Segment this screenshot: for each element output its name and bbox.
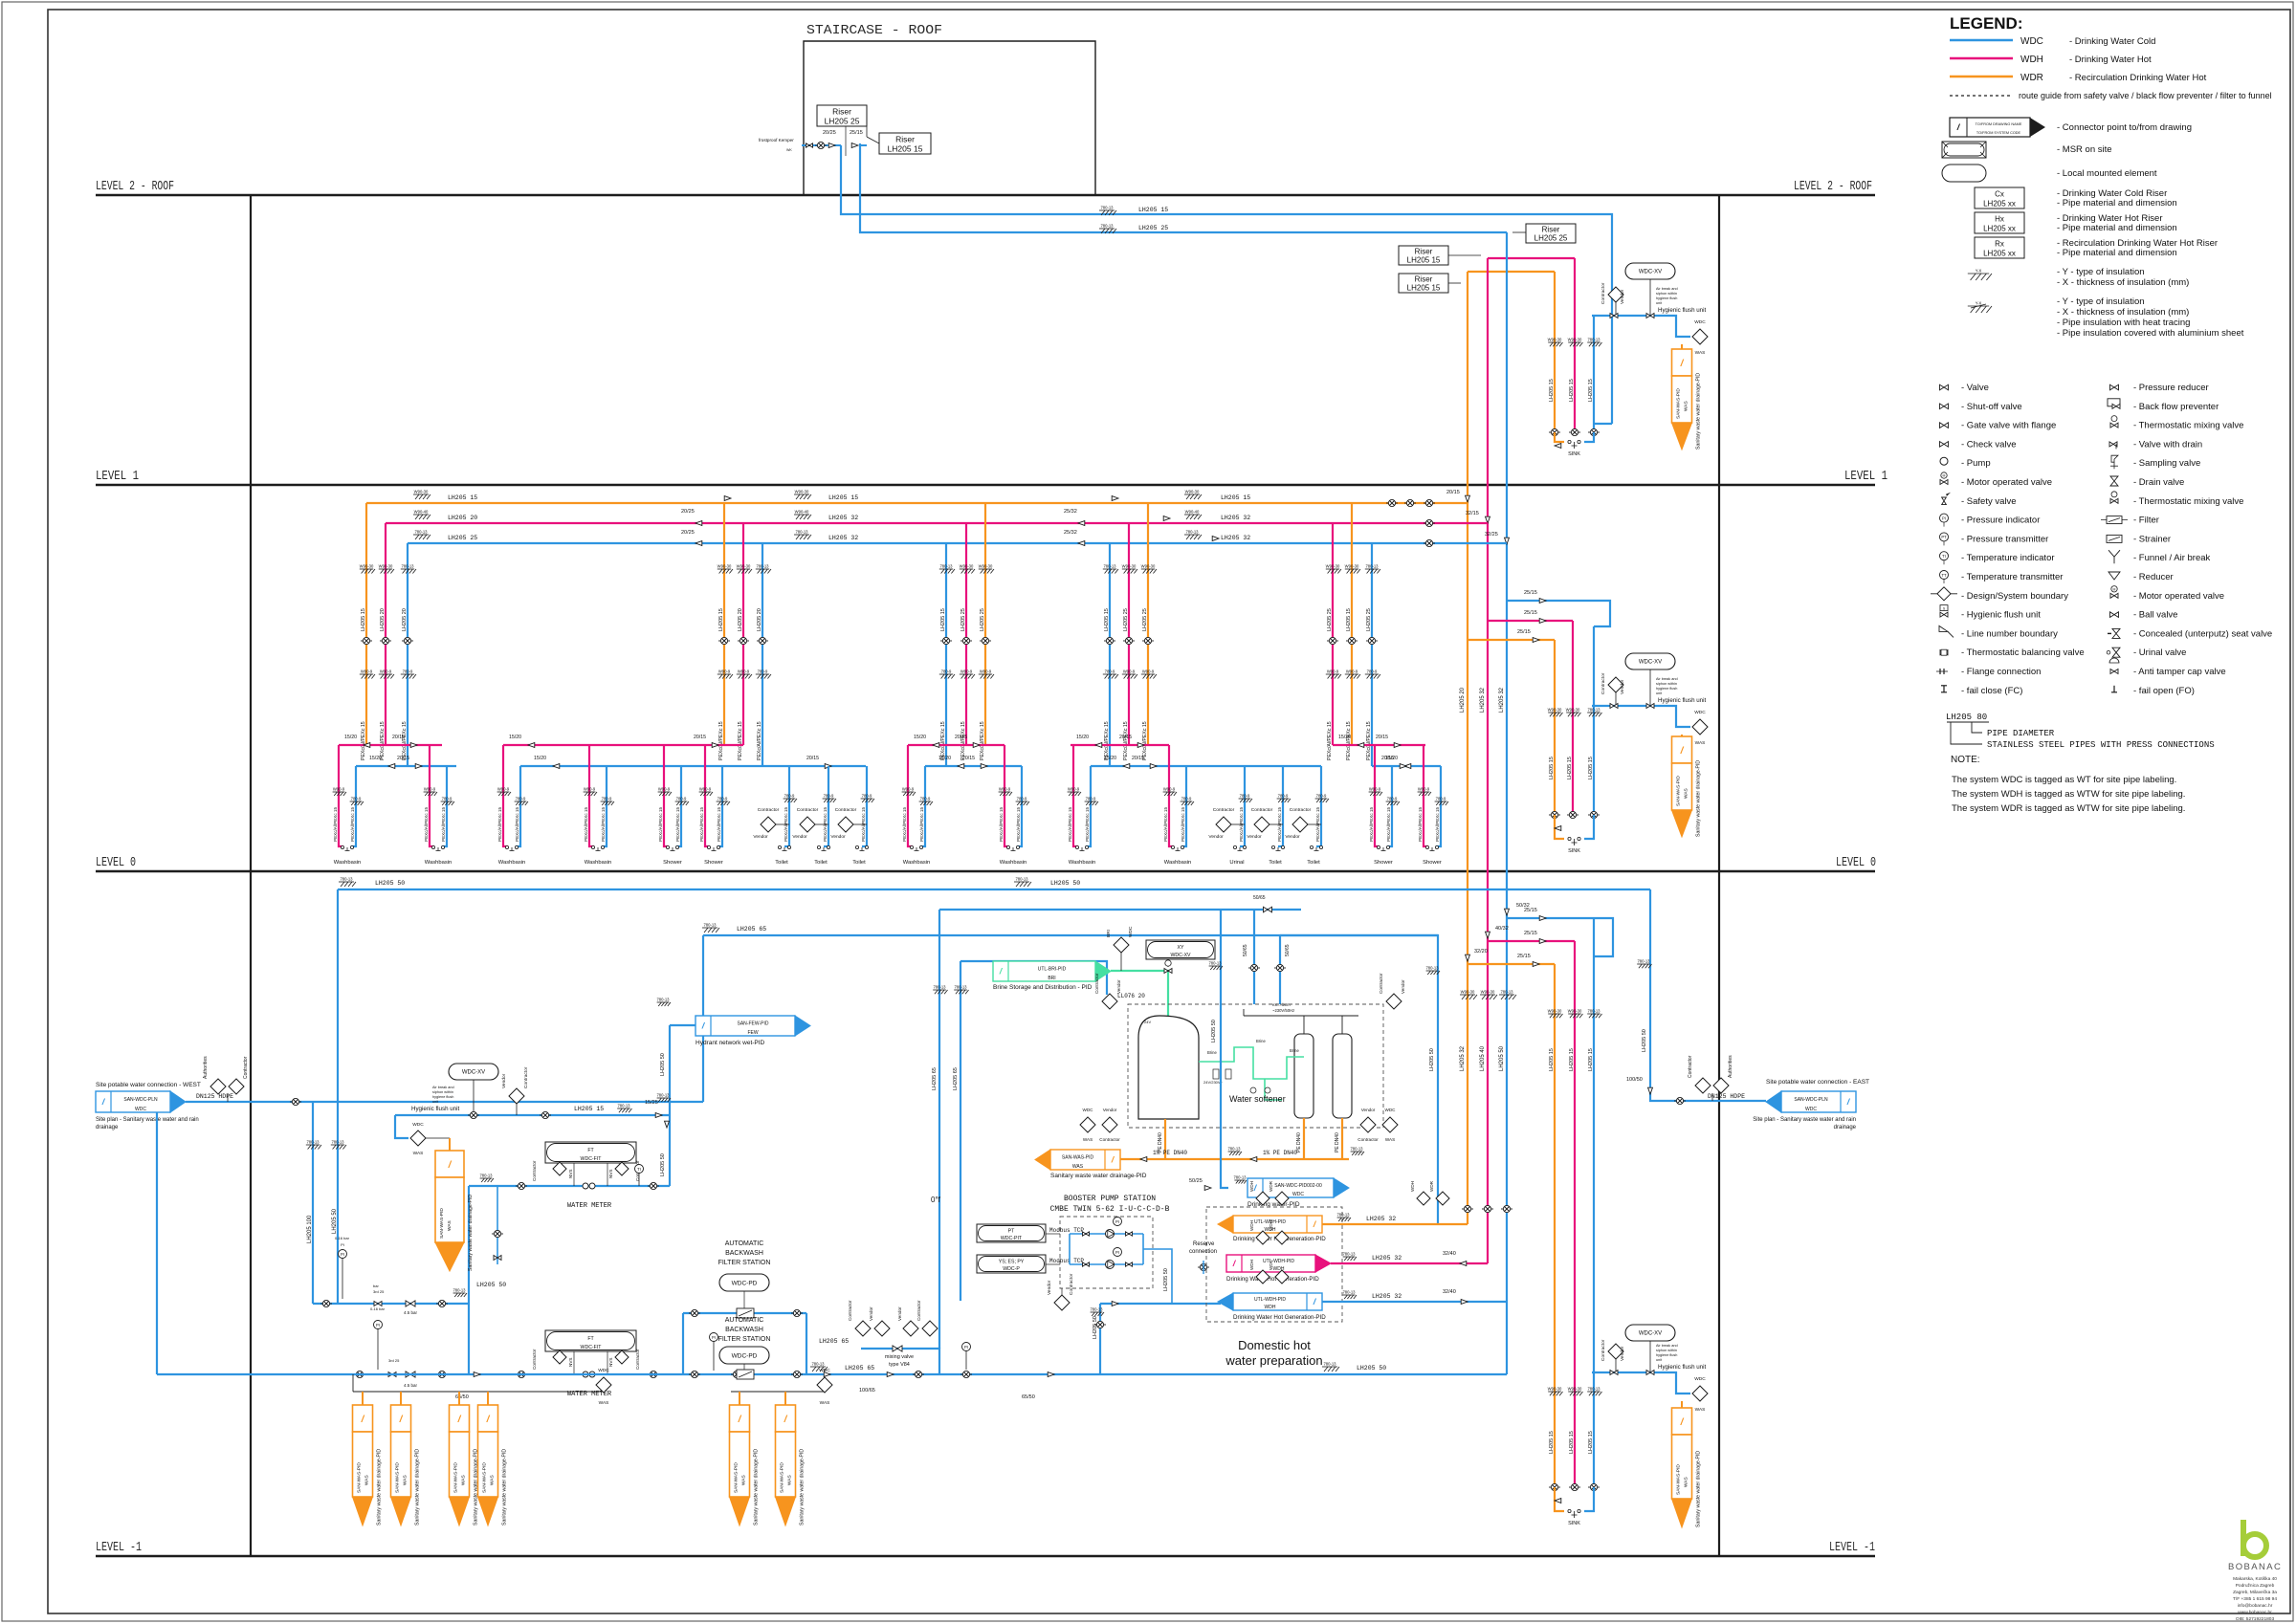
svg-text:FT: FT <box>587 1336 594 1342</box>
svg-text:SAN-WDC-PLN: SAN-WDC-PLN <box>123 1097 158 1103</box>
pressure reducer cluster on basement main <box>377 1329 379 1371</box>
svg-text:Contractor: Contractor <box>523 1066 529 1088</box>
level0 bundle2 second insulation row <box>1548 1392 1562 1395</box>
svg-text:W90-9: W90-9 <box>1123 669 1136 674</box>
hygienic flush unit piping <box>1592 1372 1690 1394</box>
svg-text:W90-9: W90-9 <box>960 669 973 674</box>
WDC/WAS boundary at funnel <box>1692 1386 1708 1401</box>
svg-text:SINK: SINK <box>1568 1521 1580 1526</box>
svg-text:Toilet: Toilet <box>1269 860 1282 866</box>
svg-text:LH205 15: LH205 15 <box>940 608 946 631</box>
group 1 hot loop <box>339 744 442 746</box>
local stadium WDC-XV <box>1625 1325 1675 1341</box>
svg-text:- Hygienic flush unit: - Hygienic flush unit <box>1961 610 2041 621</box>
svg-text:25/15: 25/15 <box>1524 908 1537 913</box>
svg-text:- Pipe insulation covered with: - Pipe insulation covered with aluminium… <box>2057 328 2244 339</box>
trunk insulation and size labels set 2 <box>794 494 811 499</box>
svg-text:Reserve: Reserve <box>1193 1241 1215 1247</box>
svg-text:LH205 25: LH205 25 <box>1327 608 1333 631</box>
svg-text:WDC-P: WDC-P <box>1003 1266 1020 1272</box>
svg-text:LH205 25: LH205 25 <box>960 608 966 631</box>
softener drain lines <box>1164 1119 1166 1159</box>
svg-text:WAS: WAS <box>1684 788 1689 799</box>
svg-text:LH205 20: LH205 20 <box>402 608 408 631</box>
svg-text:LH205 50: LH205 50 <box>1093 1316 1098 1339</box>
west feed vertical to second main <box>702 935 704 1102</box>
svg-text:- Recirculation Drinking Water: - Recirculation Drinking Water Hot <box>2069 73 2207 83</box>
svg-text:LH205 50: LH205 50 <box>1211 1020 1217 1042</box>
group 3 insulation marks lower <box>939 674 955 679</box>
svg-text:W90-30: W90-30 <box>1185 490 1200 494</box>
group 2 hot loop <box>503 744 743 746</box>
svg-text:780-13: 780-13 <box>1425 966 1439 971</box>
svg-text:50/25: 50/25 <box>1189 1178 1203 1184</box>
svg-text:Washbasin: Washbasin <box>498 860 525 866</box>
svg-text:Riser: Riser <box>1542 226 1560 234</box>
svg-text:LH205 40: LH205 40 <box>1480 1045 1486 1071</box>
fixture Washbasin at x=1131 <box>1073 745 1078 846</box>
svg-text:780-13: 780-13 <box>1227 1147 1241 1152</box>
svg-text:PI: PI <box>1115 1250 1119 1255</box>
valve on west line <box>290 1098 301 1105</box>
svg-text:32/25: 32/25 <box>1485 532 1498 538</box>
svg-text:W90-9: W90-9 <box>1369 787 1381 792</box>
svg-text:LH205 50: LH205 50 <box>660 1153 666 1176</box>
legend symbol Drain valve <box>2110 476 2118 486</box>
svg-text:780-9: 780-9 <box>941 669 952 674</box>
svg-text:PEXc/Al/PEXc 15: PEXc/Al/PEXc 15 <box>717 807 721 842</box>
svg-text:Contractor: Contractor <box>635 1349 640 1370</box>
svg-text:780-13: 780-13 <box>1500 990 1513 995</box>
svg-text:BRI: BRI <box>1106 930 1112 937</box>
svg-text:WAS: WAS <box>1684 1477 1689 1487</box>
svg-text:25/32: 25/32 <box>1064 530 1077 536</box>
group 5 insulation marks upper <box>1326 569 1341 574</box>
svg-text:- Line number boundary: - Line number boundary <box>1961 628 2058 639</box>
svg-text:LH205 65: LH205 65 <box>819 1338 849 1345</box>
svg-text:XY: XY <box>1178 945 1184 951</box>
svg-text:PEXc/Al/PEXc 15: PEXc/Al/PEXc 15 <box>980 721 985 760</box>
svg-text:WDH: WDH <box>1410 1181 1415 1192</box>
svg-text:Riser: Riser <box>832 107 851 117</box>
level2 bundle2 cold feed jog <box>1594 423 1612 425</box>
svg-text:Contractor: Contractor <box>758 807 780 813</box>
legend riser Cx box <box>1975 187 2024 208</box>
svg-text:780-13: 780-13 <box>1336 1213 1350 1218</box>
svg-text:LEVEL 0: LEVEL 0 <box>1836 856 1876 870</box>
svg-text:780-13: 780-13 <box>933 985 946 990</box>
svg-text:- Anti tamper cap valve: - Anti tamper cap valve <box>2133 667 2226 677</box>
svg-text:100/50: 100/50 <box>1626 1077 1643 1083</box>
svg-text:Sanitary waste water drainage-: Sanitary waste water drainage-PID <box>415 1449 421 1525</box>
legend symbol Design/System boundary <box>1931 593 1957 595</box>
svg-text:Contractor: Contractor <box>1099 1137 1120 1142</box>
svg-text:SINK: SINK <box>1568 848 1580 854</box>
svg-text:LH205 50: LH205 50 <box>1357 1365 1386 1372</box>
svg-text:LH205 50: LH205 50 <box>375 880 405 887</box>
level 1 stub WDC 25/15 <box>1507 601 1610 626</box>
svg-text:WAS: WAS <box>413 1151 424 1156</box>
legend symbol Thermostatic balancing valve <box>1940 650 1948 655</box>
drinking water flag SAN-WDC-PID002-00 <box>1221 910 1228 1188</box>
svg-text:780-9: 780-9 <box>602 797 612 801</box>
svg-text:15/20: 15/20 <box>1104 756 1116 761</box>
svg-text:LH205 25: LH205 25 <box>1366 608 1372 631</box>
drain funnel SAN-WAS-PID <box>1681 344 1683 349</box>
svg-text:PEXc/Al/PEXc 15: PEXc/Al/PEXc 15 <box>497 807 502 842</box>
svg-text:LH205 32: LH205 32 <box>1460 1045 1466 1071</box>
svg-text:LH205 15: LH205 15 <box>1588 379 1594 402</box>
group 1 cold loop <box>356 765 456 767</box>
svg-text:20/15: 20/15 <box>1446 490 1460 495</box>
svg-text:780-13: 780-13 <box>1587 1387 1601 1392</box>
svg-text:780-13: 780-13 <box>1103 564 1116 569</box>
legend symbol Pressure indicator <box>1940 514 1949 522</box>
svg-text:Toilet: Toilet <box>775 860 788 866</box>
drain funnel SAN-WAS-PID <box>1681 735 1683 736</box>
svg-text:LH205 50: LH205 50 <box>1642 1029 1647 1052</box>
svg-text:780-13: 780-13 <box>1233 1175 1247 1180</box>
fixture Shower at x=746 <box>705 745 710 846</box>
svg-text:LH205 65: LH205 65 <box>845 1365 874 1372</box>
insulation 780-13 on roof run upper <box>1099 210 1116 215</box>
svg-text:PEXc/Al/PEXc 15: PEXc/Al/PEXc 15 <box>380 721 386 760</box>
svg-text:780-13: 780-13 <box>479 1174 493 1178</box>
svg-text:Shower: Shower <box>1423 860 1442 866</box>
floor line LEVEL 1 <box>96 484 1875 486</box>
svg-text:- Temperature transmitter: - Temperature transmitter <box>1961 572 2063 582</box>
svg-text:WDR: WDR <box>2020 73 2043 83</box>
svg-text:LH205 15: LH205 15 <box>1569 1431 1575 1454</box>
svg-text:LH205 15: LH205 15 <box>361 608 366 631</box>
fixture Washbasin at x=1059 <box>1004 745 1009 846</box>
staircase - roof enclosure <box>804 41 1095 195</box>
svg-text:780-13: 780-13 <box>1100 206 1114 210</box>
svg-text:LL076 20: LL076 20 <box>1117 993 1145 999</box>
svg-text:LH205 32: LH205 32 <box>1221 535 1250 541</box>
svg-text:FEW: FEW <box>747 1030 758 1036</box>
bypass row with pressure reducer upper <box>313 1303 469 1305</box>
svg-text:LH205 32: LH205 32 <box>1480 687 1486 713</box>
group 5 insulation marks lower <box>1326 674 1341 679</box>
pipe riser LH205 50 left <box>337 889 339 1304</box>
svg-text:PEXc/Al/PEXc 15: PEXc/Al/PEXc 15 <box>699 807 704 842</box>
svg-text:780-13: 780-13 <box>939 564 953 569</box>
svg-text:LH205 15: LH205 15 <box>1588 1048 1594 1071</box>
svg-text:W90-9: W90-9 <box>658 787 671 792</box>
company logo BOBANAC <box>2243 1520 2266 1557</box>
svg-text:Domestic hot: Domestic hot <box>1238 1338 1311 1352</box>
svg-text:W90-30: W90-30 <box>414 490 429 494</box>
svg-text:780-13: 780-13 <box>340 877 353 882</box>
svg-text:W90-9: W90-9 <box>361 669 373 674</box>
svg-text:LH205 32: LH205 32 <box>1499 687 1505 713</box>
fixture Shower at x=1497 <box>1424 745 1428 846</box>
group 5 riser drops <box>1332 523 1334 745</box>
insulation marks on left risers <box>306 1145 321 1150</box>
svg-text:- Valve: - Valve <box>1961 383 1989 393</box>
svg-text:LH205 25: LH205 25 <box>1142 608 1148 631</box>
riser box LH205 15 right lower <box>1399 274 1448 293</box>
mixing valve group <box>855 1321 871 1336</box>
contractor/authorities boundary east <box>1695 1078 1711 1093</box>
svg-text:WDC: WDC <box>1083 1108 1094 1112</box>
svg-text:LH205 20: LH205 20 <box>448 515 477 521</box>
svg-text:W90-9: W90-9 <box>738 669 750 674</box>
svg-text:- fail close (FC): - fail close (FC) <box>1961 686 2022 696</box>
svg-text:WK: WK <box>786 148 792 152</box>
svg-text:LH205 50: LH205 50 <box>1163 1268 1169 1291</box>
group 4 insulation marks lower <box>1103 674 1118 679</box>
trunk flow arrows <box>1112 496 1118 501</box>
svg-text:W90-30: W90-30 <box>1568 338 1582 342</box>
svg-text:WDC-FIT: WDC-FIT <box>581 1156 603 1162</box>
svg-text:W90-30: W90-30 <box>960 564 974 569</box>
drain collector left <box>353 1391 604 1393</box>
svg-text:20/15: 20/15 <box>1132 756 1144 761</box>
svg-text:SAN-WAS-PID: SAN-WAS-PID <box>395 1462 401 1493</box>
svg-text:LH205 25: LH205 25 <box>825 117 860 126</box>
svg-text:PEXc/Al/PEXc 15: PEXc/Al/PEXc 15 <box>350 807 355 842</box>
svg-text:- Funnel / Air break: - Funnel / Air break <box>2133 553 2211 563</box>
svg-text:W90-9: W90-9 <box>1142 669 1155 674</box>
svg-text:PT: PT <box>1008 1228 1015 1234</box>
hot generation flag WDH (magenta) <box>1256 1231 1269 1244</box>
svg-text:Vendor: Vendor <box>1103 1108 1117 1112</box>
svg-text:LH205 15: LH205 15 <box>1549 1431 1555 1454</box>
svg-text:780-13: 780-13 <box>617 1104 630 1108</box>
svg-text:TI: TI <box>637 1167 641 1172</box>
svg-text:780-13: 780-13 <box>703 923 717 928</box>
svg-text:4.5 bar: 4.5 bar <box>404 1310 418 1315</box>
svg-text:W90-30: W90-30 <box>1141 564 1156 569</box>
legend symbol Shut-off valve <box>1940 404 1949 409</box>
svg-text:connection: connection <box>1189 1249 1217 1255</box>
svg-text:780-13: 780-13 <box>1365 564 1379 569</box>
legend symbol Concealed (unterputz) seat valve <box>2108 632 2111 634</box>
svg-text:LH205 20: LH205 20 <box>738 608 743 631</box>
svg-text:bar: bar <box>373 1284 379 1288</box>
svg-text:LH205 15: LH205 15 <box>888 144 923 154</box>
hygienic flush line level -1 <box>395 1114 670 1116</box>
svg-text:LH205 25: LH205 25 <box>980 608 985 631</box>
WDH/WDR valves at risers <box>1462 1205 1473 1212</box>
svg-text:Contractor: Contractor <box>1094 973 1099 994</box>
water meter 1 vertical <box>468 1186 470 1374</box>
svg-text:unit: unit <box>1656 1358 1663 1362</box>
legend symbol Urinal valve <box>2107 650 2110 654</box>
svg-text:SAN-WAS-PID: SAN-WAS-PID <box>1676 776 1682 806</box>
svg-text:LH205 15: LH205 15 <box>1407 256 1441 265</box>
svg-text:W90-30: W90-30 <box>1548 338 1562 342</box>
svg-text:- X - thickness of insulation: - X - thickness of insulation (mm) <box>2057 307 2189 318</box>
svg-text:0-16 bar: 0-16 bar <box>335 1236 350 1240</box>
funnel SAN-WAS-PID x=773 <box>739 1392 740 1405</box>
svg-text:- Gate valve with flange: - Gate valve with flange <box>1961 421 2056 431</box>
svg-text:Washbasin: Washbasin <box>425 860 452 866</box>
svg-text:PEXc/Al/PEXc 15: PEXc/Al/PEXc 15 <box>1104 721 1110 760</box>
svg-text:W90-9: W90-9 <box>718 669 731 674</box>
svg-text:UTL-WDH-PID: UTL-WDH-PID <box>1254 1297 1286 1303</box>
svg-text:LH205 15: LH205 15 <box>1346 608 1352 631</box>
svg-text:780-13: 780-13 <box>1323 1362 1336 1367</box>
main WDC line second LH205 65 <box>703 935 1438 1224</box>
svg-text:W90-9: W90-9 <box>584 787 596 792</box>
authorities/contractor boundary west <box>210 1079 226 1094</box>
legend symbol Hygienic flush unit <box>1940 612 1948 617</box>
svg-text:PT: PT <box>1941 535 1947 539</box>
svg-text:WAS: WAS <box>461 1475 467 1485</box>
svg-text:0-16 bar: 0-16 bar <box>370 1306 386 1311</box>
svg-text:TO/FROM SYSTEM CODE: TO/FROM SYSTEM CODE <box>1976 131 2021 135</box>
svg-text:LH205 15: LH205 15 <box>1569 379 1575 402</box>
svg-text:Y-X: Y-X <box>1976 301 1982 306</box>
svg-text:25/15: 25/15 <box>1524 610 1537 616</box>
booster pump MSR PT/WDC-PIT <box>977 1224 1046 1242</box>
svg-text:drainage: drainage <box>1834 1125 1857 1130</box>
legend symbol Valve with drain <box>2109 442 2117 447</box>
svg-text:Vendor: Vendor <box>1247 834 1262 840</box>
svg-text:- fail open (FO): - fail open (FO) <box>2133 686 2195 696</box>
trunk end valves <box>1386 499 1398 506</box>
water meter 1 line <box>469 1185 670 1187</box>
svg-text:Vendor: Vendor <box>753 834 768 840</box>
svg-text:hygiene flush: hygiene flush <box>1656 296 1677 300</box>
svg-text:T/F +385 1 615 98 94: T/F +385 1 615 98 94 <box>2233 1596 2277 1602</box>
svg-text:15/25: 15/25 <box>645 1100 658 1106</box>
svg-text:Authorities: Authorities <box>203 1056 209 1079</box>
svg-text:NVS: NVS <box>568 1358 573 1367</box>
legend symbol Funnel / Air break <box>2108 550 2120 563</box>
svg-text:LH205 80: LH205 80 <box>1946 713 1987 722</box>
brine distribution lines <box>1199 1047 1304 1079</box>
svg-text:780-9: 780-9 <box>824 794 834 799</box>
svg-text:WDC-XV: WDC-XV <box>462 1070 485 1076</box>
svg-text:CMBE TWIN 5-62 I-U-C-C-D-B: CMBE TWIN 5-62 I-U-C-C-D-B <box>1050 1205 1170 1214</box>
svg-text:Site plan - Sanitary waste wat: Site plan - Sanitary waste water and rai… <box>96 1117 199 1123</box>
svg-text:Sanitary waste water drainage-: Sanitary waste water drainage-PID <box>468 1195 474 1271</box>
svg-text:- Connector point to/from draw: - Connector point to/from drawing <box>2057 122 2192 133</box>
svg-text:FT: FT <box>587 1148 594 1153</box>
svg-text:LEVEL 1: LEVEL 1 <box>96 470 139 484</box>
svg-text:20/15: 20/15 <box>694 735 706 740</box>
svg-text:PIPE DIAMETER: PIPE DIAMETER <box>1987 729 2055 738</box>
svg-text:780-9: 780-9 <box>403 669 413 674</box>
svg-text:- Pipe material and dimension: - Pipe material and dimension <box>2057 223 2177 233</box>
funnel SAN-WAS-PID x=821 <box>784 1392 786 1405</box>
svg-text:LH205 32: LH205 32 <box>1366 1216 1396 1222</box>
svg-text:PEXc/Al/PEXc 15: PEXc/Al/PEXc 15 <box>1181 807 1185 842</box>
svg-text:Washbasin: Washbasin <box>903 860 930 866</box>
svg-text:LEGEND:: LEGEND: <box>1950 14 2023 33</box>
svg-text:LH205 65: LH205 65 <box>932 1067 938 1090</box>
svg-text:Y-X: Y-X <box>1976 269 1982 274</box>
svg-text:Washbasin: Washbasin <box>1164 860 1191 866</box>
hot generation flag WDR (orange) <box>1256 1192 1269 1205</box>
legend symbol Gate valve with flange <box>1940 423 1949 428</box>
svg-text:BOOSTER PUMP STATION: BOOSTER PUMP STATION <box>1064 1195 1156 1203</box>
svg-text:Riser: Riser <box>1415 248 1433 256</box>
svg-text:Riser: Riser <box>1415 275 1433 284</box>
svg-text:W90-9: W90-9 <box>497 787 510 792</box>
svg-text:780-9: 780-9 <box>1017 797 1027 801</box>
svg-text:780-9: 780-9 <box>1367 669 1378 674</box>
svg-text:WDH: WDH <box>1265 1305 1276 1310</box>
group 3 riser drops <box>945 543 947 766</box>
svg-text:W90-30: W90-30 <box>737 564 751 569</box>
svg-text:LH205 25: LH205 25 <box>1123 608 1129 631</box>
svg-text:siphon within: siphon within <box>1656 292 1677 296</box>
svg-text:LH205 15: LH205 15 <box>1104 608 1110 631</box>
svg-text:W90-9: W90-9 <box>1068 787 1080 792</box>
group 5 hot loop <box>1333 744 1425 746</box>
svg-text:- Drinking Water Hot: - Drinking Water Hot <box>2069 55 2152 65</box>
svg-text:Toilet: Toilet <box>1307 860 1320 866</box>
svg-text:Brine: Brine <box>1290 1048 1299 1053</box>
svg-text:LEVEL 1: LEVEL 1 <box>1844 470 1888 484</box>
svg-text:WDC-PIT: WDC-PIT <box>1001 1236 1023 1241</box>
svg-text:LH205 15: LH205 15 <box>448 494 477 501</box>
svg-text:LH205 32: LH205 32 <box>1372 1255 1402 1262</box>
svg-text:Site potable water connection: Site potable water connection - WEST <box>96 1082 201 1088</box>
svg-text:Contractor: Contractor <box>1358 1137 1379 1142</box>
pipe WDC from roof riser lower <box>860 144 867 146</box>
svg-text:780-13: 780-13 <box>306 1140 320 1145</box>
water softener tank <box>1138 1016 1199 1119</box>
svg-text:Urinal: Urinal <box>1229 860 1244 866</box>
svg-text:LH205 15: LH205 15 <box>574 1106 604 1112</box>
svg-text:780-13: 780-13 <box>1637 959 1650 964</box>
svg-text:Vendor: Vendor <box>1620 1346 1625 1361</box>
svg-text:PEXc/Al/PEXc 15: PEXc/Al/PEXc 15 <box>333 807 338 842</box>
legend insulation symbol plain <box>1968 274 1992 280</box>
svg-text:780-13: 780-13 <box>1342 1252 1356 1257</box>
svg-text:BACKWASH: BACKWASH <box>725 1250 763 1257</box>
legend symbol Thermostatic mixing valve <box>2110 423 2118 428</box>
svg-text:W90-9: W90-9 <box>1327 669 1339 674</box>
svg-text:PI: PI <box>341 1242 344 1247</box>
legend riser Rx box <box>1975 237 2024 258</box>
main WDC line upper LH205 50 <box>338 889 1650 890</box>
svg-text:M: M <box>2113 587 2116 591</box>
svg-text:50/65: 50/65 <box>1243 944 1248 956</box>
WDC/WAS boundary right collector <box>817 1377 832 1393</box>
svg-text:PEXc/Al/PEXc 15: PEXc/Al/PEXc 15 <box>402 721 408 760</box>
riser box LH205 15 top <box>879 133 931 154</box>
svg-text:- Flange connection: - Flange connection <box>1961 667 2041 677</box>
svg-text:WAS: WAS <box>447 1220 453 1231</box>
svg-text:SAN-WAS-PID: SAN-WAS-PID <box>734 1462 740 1493</box>
svg-text:Sanitary waste water drainage-: Sanitary waste water drainage-PID <box>1696 1451 1702 1527</box>
svg-text:780-13: 780-13 <box>1342 1290 1356 1295</box>
legend symbol Pressure reducer <box>2110 384 2119 390</box>
local stadium WDC-XV <box>1625 653 1675 669</box>
svg-text:- Urinal valve: - Urinal valve <box>2133 647 2186 658</box>
svg-text:Washbasin: Washbasin <box>1000 860 1027 866</box>
drain collector right <box>731 1391 825 1393</box>
softener feed main LH205 65 <box>939 909 1301 911</box>
svg-text:LH205 32: LH205 32 <box>828 535 858 541</box>
svg-text:Washbasin: Washbasin <box>334 860 361 866</box>
svg-text:- Drain valve: - Drain valve <box>2133 477 2184 488</box>
svg-text:Toilet: Toilet <box>814 860 828 866</box>
legend connector point symbol <box>1950 118 2030 137</box>
pipe riser LH205 100 <box>312 1102 314 1304</box>
toilet feed line right group <box>1191 765 1321 767</box>
svg-text:WAS: WAS <box>1684 401 1689 411</box>
svg-text:PEXc/Al/PEXc 15: PEXc/Al/PEXc 15 <box>757 721 762 760</box>
svg-text:WDC: WDC <box>2020 36 2043 47</box>
